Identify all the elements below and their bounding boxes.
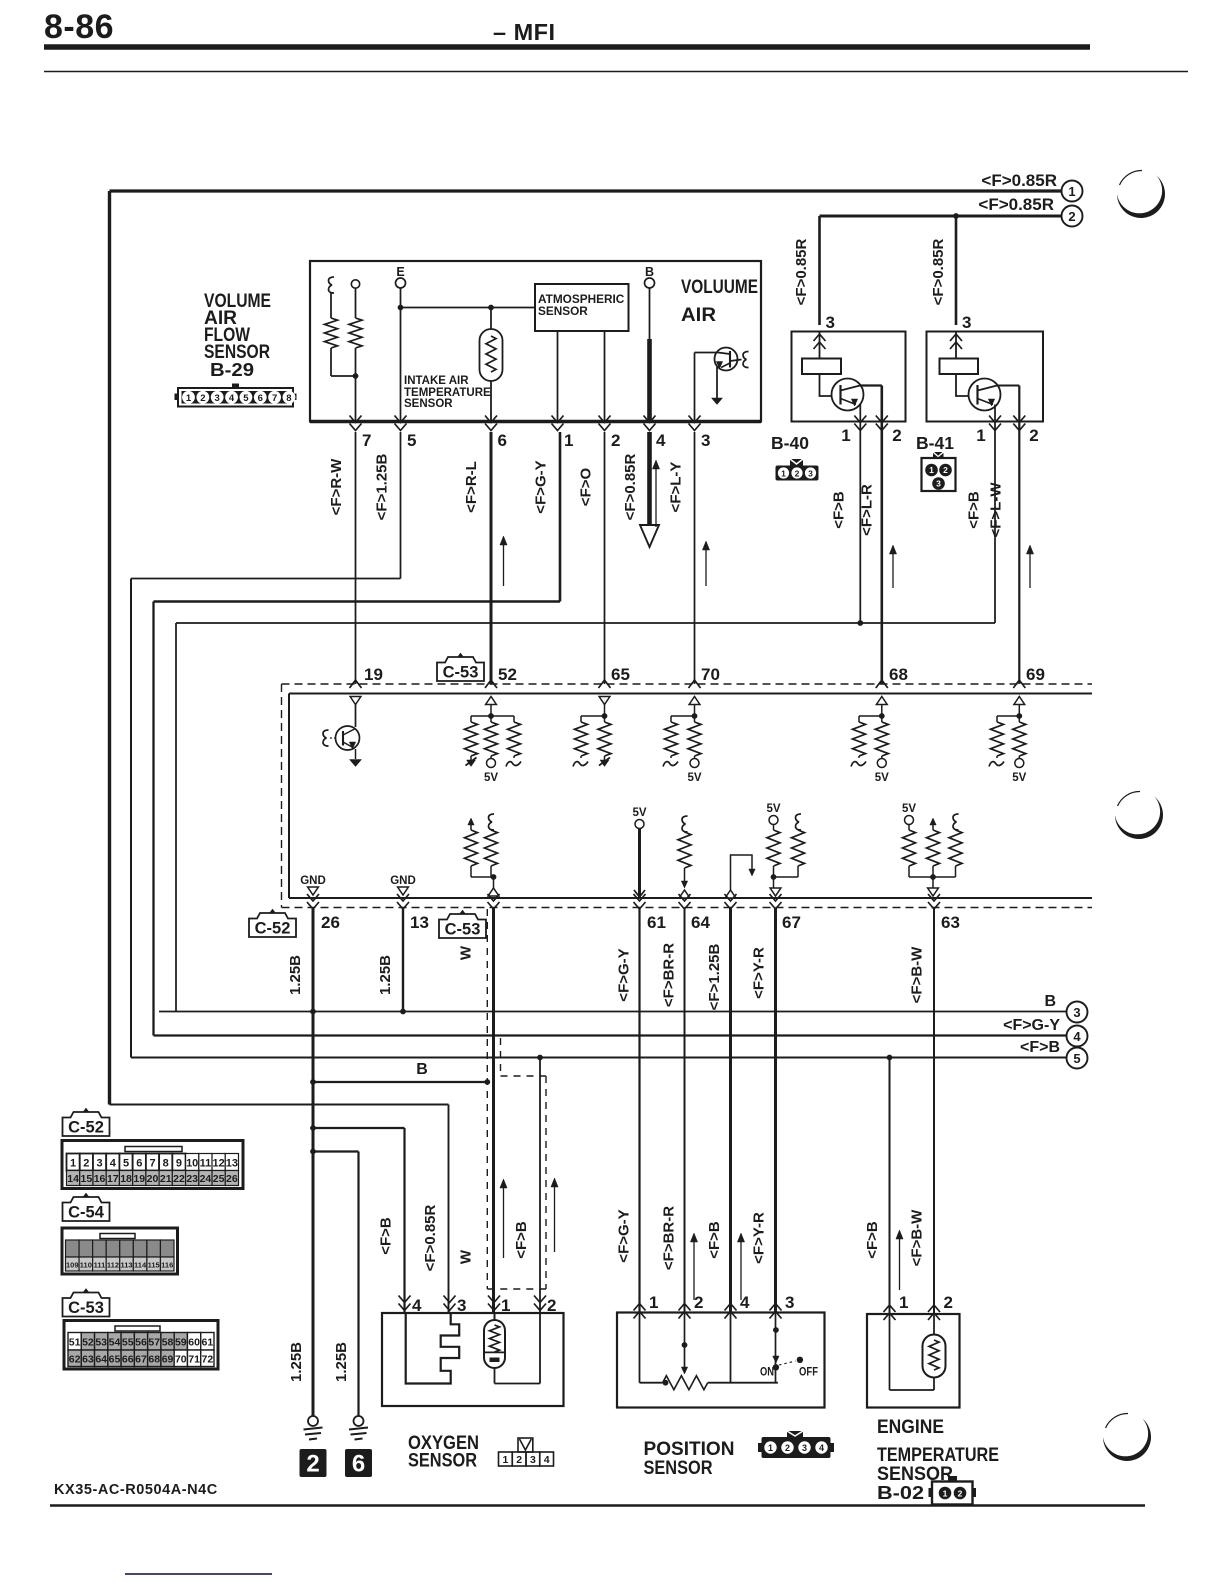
svg-text:B-41: B-41 bbox=[916, 433, 954, 453]
svg-text:6: 6 bbox=[352, 1451, 365, 1478]
svg-text:<F>L-R: <F>L-R bbox=[859, 484, 876, 536]
svg-text:B: B bbox=[416, 1061, 428, 1078]
svg-text:4: 4 bbox=[1073, 1029, 1081, 1044]
svg-text:52: 52 bbox=[82, 1337, 94, 1349]
svg-text:<F>G-Y: <F>G-Y bbox=[616, 948, 633, 1001]
svg-text:2: 2 bbox=[958, 1488, 963, 1498]
svg-text:69: 69 bbox=[1026, 665, 1045, 684]
svg-text:3: 3 bbox=[530, 1454, 536, 1466]
svg-text:GND: GND bbox=[300, 875, 326, 887]
svg-text:<F>B: <F>B bbox=[378, 1217, 395, 1255]
svg-text:53: 53 bbox=[95, 1337, 107, 1349]
svg-text:2: 2 bbox=[611, 431, 620, 450]
svg-text:4: 4 bbox=[656, 431, 666, 450]
svg-text:1: 1 bbox=[70, 1158, 76, 1170]
svg-text:3: 3 bbox=[808, 469, 813, 479]
svg-text:2: 2 bbox=[943, 465, 948, 475]
svg-text:11: 11 bbox=[200, 1158, 212, 1170]
svg-text:1.25B: 1.25B bbox=[288, 1342, 305, 1382]
svg-text:3: 3 bbox=[1073, 1005, 1080, 1020]
svg-text:18: 18 bbox=[120, 1173, 132, 1185]
svg-text:1: 1 bbox=[768, 1443, 773, 1453]
svg-text:1: 1 bbox=[781, 469, 786, 479]
svg-text:19: 19 bbox=[364, 665, 383, 684]
svg-text:5: 5 bbox=[1073, 1051, 1080, 1066]
svg-text:1.25B: 1.25B bbox=[333, 1342, 350, 1382]
svg-text:111: 111 bbox=[94, 1261, 106, 1270]
svg-text:8: 8 bbox=[286, 393, 291, 404]
svg-text:67: 67 bbox=[135, 1354, 147, 1366]
svg-text:B-40: B-40 bbox=[771, 433, 809, 453]
svg-text:<F>G-Y: <F>G-Y bbox=[1003, 1017, 1060, 1034]
svg-text:2: 2 bbox=[892, 426, 901, 445]
svg-text:26: 26 bbox=[226, 1173, 238, 1185]
svg-text:B: B bbox=[1044, 993, 1056, 1010]
svg-text:<F>B: <F>B bbox=[1020, 1039, 1060, 1056]
svg-text:25: 25 bbox=[213, 1173, 225, 1185]
svg-text:6: 6 bbox=[498, 431, 507, 450]
svg-text:4: 4 bbox=[544, 1454, 550, 1466]
svg-text:<F>G-Y: <F>G-Y bbox=[533, 460, 550, 513]
svg-text:<F>B: <F>B bbox=[706, 1221, 723, 1259]
svg-text:110: 110 bbox=[80, 1261, 92, 1270]
svg-text:VOLUUME: VOLUUME bbox=[681, 276, 758, 298]
svg-text:3: 3 bbox=[826, 313, 835, 332]
svg-text:<F>BR-R: <F>BR-R bbox=[661, 943, 678, 1007]
svg-text:3: 3 bbox=[802, 1443, 807, 1453]
svg-text:<F>BR-R: <F>BR-R bbox=[661, 1206, 678, 1270]
svg-text:<F>B: <F>B bbox=[864, 1221, 881, 1259]
svg-text:63: 63 bbox=[941, 913, 960, 932]
svg-text:SENSOR: SENSOR bbox=[408, 1450, 477, 1472]
svg-text:16: 16 bbox=[94, 1173, 106, 1185]
svg-text:<F>Y-R: <F>Y-R bbox=[751, 1212, 768, 1264]
svg-text:64: 64 bbox=[95, 1354, 107, 1366]
svg-text:114: 114 bbox=[134, 1261, 147, 1270]
svg-text:<F>L-W: <F>L-W bbox=[988, 482, 1005, 538]
svg-text:3: 3 bbox=[962, 313, 971, 332]
svg-text:1: 1 bbox=[943, 1488, 948, 1498]
svg-text:63: 63 bbox=[82, 1354, 94, 1366]
svg-text:5V: 5V bbox=[687, 772, 701, 784]
svg-text:2: 2 bbox=[944, 1293, 953, 1312]
svg-text:61: 61 bbox=[202, 1337, 214, 1349]
svg-text:<F>0.85R: <F>0.85R bbox=[422, 1204, 439, 1271]
svg-text:65: 65 bbox=[611, 665, 630, 684]
svg-text:19: 19 bbox=[133, 1173, 145, 1185]
svg-text:<F>B: <F>B bbox=[831, 491, 848, 529]
svg-text:5V: 5V bbox=[1012, 772, 1026, 784]
svg-text:13: 13 bbox=[226, 1158, 238, 1170]
svg-text:70: 70 bbox=[175, 1354, 187, 1366]
svg-text:7: 7 bbox=[362, 431, 371, 450]
svg-text:4: 4 bbox=[412, 1296, 422, 1315]
svg-text:60: 60 bbox=[188, 1337, 200, 1349]
svg-text:69: 69 bbox=[162, 1354, 174, 1366]
svg-text:B-29: B-29 bbox=[210, 359, 254, 380]
svg-text:2: 2 bbox=[516, 1454, 522, 1466]
svg-text:– MFI: – MFI bbox=[493, 19, 556, 45]
svg-text:2: 2 bbox=[795, 469, 800, 479]
svg-text:6: 6 bbox=[258, 393, 263, 404]
svg-text:<F>G-Y: <F>G-Y bbox=[616, 1209, 633, 1262]
svg-text:C-54: C-54 bbox=[68, 1204, 105, 1222]
svg-text:8-86: 8-86 bbox=[44, 8, 114, 46]
svg-text:1.25B: 1.25B bbox=[287, 955, 304, 995]
svg-text:56: 56 bbox=[135, 1337, 147, 1349]
svg-text:<F>0.85R: <F>0.85R bbox=[793, 238, 810, 305]
svg-text:71: 71 bbox=[188, 1354, 200, 1366]
svg-text:17: 17 bbox=[107, 1173, 119, 1185]
svg-text:C-52: C-52 bbox=[68, 1119, 104, 1137]
svg-text:64: 64 bbox=[691, 913, 710, 932]
svg-text:4: 4 bbox=[740, 1293, 750, 1312]
svg-text:1: 1 bbox=[976, 426, 985, 445]
svg-text:1: 1 bbox=[899, 1293, 908, 1312]
svg-text:58: 58 bbox=[162, 1337, 174, 1349]
svg-text:<F>R-L: <F>R-L bbox=[463, 461, 480, 513]
svg-text:KX35-AC-R0504A-N4C: KX35-AC-R0504A-N4C bbox=[54, 1482, 218, 1498]
svg-text:<F>B: <F>B bbox=[966, 491, 983, 529]
svg-text:8: 8 bbox=[163, 1158, 169, 1170]
svg-text:7: 7 bbox=[149, 1158, 155, 1170]
svg-text:C-53: C-53 bbox=[68, 1299, 104, 1317]
svg-text:<F>1.25B: <F>1.25B bbox=[374, 453, 391, 520]
svg-text:5V: 5V bbox=[766, 803, 780, 815]
svg-text:GND: GND bbox=[390, 875, 416, 887]
svg-text:67: 67 bbox=[782, 913, 801, 932]
svg-text:<F>B-W: <F>B-W bbox=[909, 1209, 926, 1267]
svg-text:<F>0.85R: <F>0.85R bbox=[622, 453, 639, 520]
svg-text:W: W bbox=[458, 945, 475, 960]
svg-text:116: 116 bbox=[161, 1261, 173, 1270]
svg-text:55: 55 bbox=[122, 1337, 134, 1349]
svg-text:15: 15 bbox=[81, 1173, 93, 1185]
svg-text:<F>B-W: <F>B-W bbox=[909, 946, 926, 1004]
svg-text:1.25B: 1.25B bbox=[377, 955, 394, 995]
svg-text:2: 2 bbox=[694, 1293, 703, 1312]
svg-text:OFF: OFF bbox=[799, 1365, 818, 1379]
svg-text:1: 1 bbox=[564, 431, 573, 450]
svg-text:2: 2 bbox=[547, 1296, 556, 1315]
svg-text:5V: 5V bbox=[902, 803, 916, 815]
svg-text:1: 1 bbox=[1068, 184, 1075, 199]
svg-text:68: 68 bbox=[148, 1354, 160, 1366]
svg-text:2: 2 bbox=[306, 1451, 319, 1478]
svg-text:W: W bbox=[458, 1249, 475, 1264]
svg-text:1: 1 bbox=[841, 426, 850, 445]
svg-text:3: 3 bbox=[701, 431, 710, 450]
svg-text:51: 51 bbox=[69, 1337, 81, 1349]
svg-text:1: 1 bbox=[502, 1454, 508, 1466]
svg-text:<F>O: <F>O bbox=[578, 467, 595, 506]
svg-text:59: 59 bbox=[175, 1337, 187, 1349]
svg-text:5: 5 bbox=[243, 393, 249, 404]
svg-text:3: 3 bbox=[457, 1296, 466, 1315]
svg-text:<F>0.85R: <F>0.85R bbox=[978, 195, 1054, 214]
svg-text:INTAKE AIR: INTAKE AIR bbox=[404, 375, 469, 387]
svg-text:57: 57 bbox=[148, 1337, 160, 1349]
svg-text:115: 115 bbox=[148, 1261, 160, 1270]
svg-text:5: 5 bbox=[407, 431, 416, 450]
svg-text:2: 2 bbox=[200, 393, 205, 404]
svg-text:54: 54 bbox=[109, 1337, 121, 1349]
svg-text:1: 1 bbox=[649, 1293, 658, 1312]
svg-text:5V: 5V bbox=[484, 772, 498, 784]
svg-text:<F>0.85R: <F>0.85R bbox=[981, 171, 1057, 190]
svg-text:13: 13 bbox=[410, 913, 429, 932]
svg-text:23: 23 bbox=[186, 1173, 198, 1185]
svg-text:3: 3 bbox=[785, 1293, 794, 1312]
svg-text:<F>0.85R: <F>0.85R bbox=[930, 238, 947, 305]
svg-text:3: 3 bbox=[215, 393, 220, 404]
svg-text:12: 12 bbox=[213, 1158, 225, 1170]
svg-text:E: E bbox=[396, 265, 404, 279]
svg-text:26: 26 bbox=[321, 913, 340, 932]
svg-text:4: 4 bbox=[229, 393, 235, 404]
svg-text:B: B bbox=[645, 265, 654, 279]
svg-text:5V: 5V bbox=[875, 772, 889, 784]
svg-text:1: 1 bbox=[186, 393, 192, 404]
svg-text:3: 3 bbox=[936, 479, 941, 489]
svg-text:C-53: C-53 bbox=[443, 664, 479, 682]
svg-text:<F>R-W: <F>R-W bbox=[328, 458, 345, 516]
svg-text:14: 14 bbox=[67, 1173, 79, 1185]
svg-text:4: 4 bbox=[110, 1158, 117, 1170]
svg-text:24: 24 bbox=[200, 1173, 212, 1185]
svg-text:4: 4 bbox=[819, 1443, 824, 1453]
svg-text:61: 61 bbox=[647, 913, 666, 932]
svg-text:ON: ON bbox=[760, 1365, 774, 1379]
svg-text:1: 1 bbox=[501, 1296, 510, 1315]
svg-text:2: 2 bbox=[1029, 426, 1038, 445]
svg-text:112: 112 bbox=[107, 1261, 119, 1270]
svg-text:72: 72 bbox=[202, 1354, 214, 1366]
svg-text:3: 3 bbox=[97, 1158, 103, 1170]
svg-text:B-02: B-02 bbox=[877, 1483, 924, 1503]
svg-text:5V: 5V bbox=[632, 807, 646, 819]
svg-text:10: 10 bbox=[186, 1158, 198, 1170]
svg-text:22: 22 bbox=[173, 1173, 185, 1185]
svg-text:21: 21 bbox=[160, 1173, 172, 1185]
svg-text:<F>B: <F>B bbox=[513, 1221, 530, 1259]
svg-text:70: 70 bbox=[701, 665, 720, 684]
svg-text:66: 66 bbox=[122, 1354, 134, 1366]
svg-text:SENSOR: SENSOR bbox=[404, 398, 453, 410]
svg-text:SENSOR: SENSOR bbox=[538, 304, 588, 318]
svg-text:6: 6 bbox=[136, 1158, 142, 1170]
svg-text:20: 20 bbox=[147, 1173, 159, 1185]
svg-text:2: 2 bbox=[785, 1443, 790, 1453]
svg-text:C-53: C-53 bbox=[445, 921, 481, 939]
svg-text:65: 65 bbox=[109, 1354, 121, 1366]
svg-text:2: 2 bbox=[1068, 209, 1075, 224]
svg-text:1: 1 bbox=[929, 465, 934, 475]
svg-text:<F>Y-R: <F>Y-R bbox=[751, 947, 768, 999]
svg-text:AIR: AIR bbox=[681, 304, 716, 326]
svg-text:2: 2 bbox=[83, 1158, 89, 1170]
svg-text:62: 62 bbox=[69, 1354, 81, 1366]
svg-text:68: 68 bbox=[889, 665, 908, 684]
svg-text:C-52: C-52 bbox=[255, 920, 291, 938]
svg-text:<F>1.25B: <F>1.25B bbox=[706, 943, 723, 1010]
svg-text:5: 5 bbox=[123, 1158, 129, 1170]
svg-text:<F>L-Y: <F>L-Y bbox=[668, 462, 685, 513]
svg-text:52: 52 bbox=[498, 665, 517, 684]
svg-text:SENSOR: SENSOR bbox=[644, 1457, 713, 1479]
svg-text:ENGINE: ENGINE bbox=[877, 1416, 944, 1438]
svg-text:7: 7 bbox=[272, 393, 277, 404]
svg-text:109: 109 bbox=[66, 1261, 79, 1270]
svg-text:9: 9 bbox=[176, 1158, 182, 1170]
svg-text:113: 113 bbox=[120, 1261, 132, 1270]
